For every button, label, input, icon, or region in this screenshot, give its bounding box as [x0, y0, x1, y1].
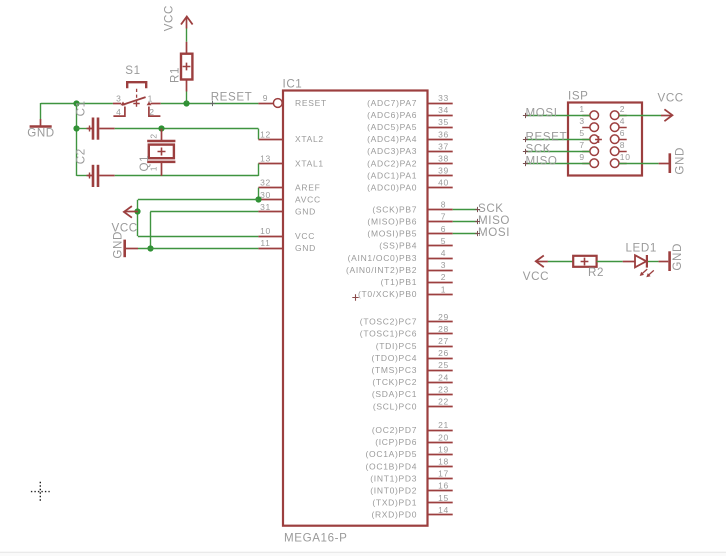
sheet origin dotted cross: [31, 482, 50, 501]
svg-text:19: 19: [438, 444, 449, 454]
svg-text:34: 34: [438, 105, 449, 115]
svg-text:13: 13: [260, 154, 271, 164]
crystal Q1: [147, 129, 175, 176]
ISP pin 1 pad: [579, 104, 598, 119]
ISP origin cross: [595, 136, 602, 143]
svg-text:ISP: ISP: [568, 90, 589, 103]
svg-text:(SDA)PC1: (SDA)PC1: [372, 389, 417, 399]
IC1 origin cross: [352, 294, 358, 300]
svg-text:(INT1)PD3: (INT1)PD3: [370, 473, 417, 483]
svg-text:1: 1: [579, 104, 584, 114]
svg-text:37: 37: [438, 141, 449, 151]
wire: [548, 261, 573, 263]
svg-text:(ADC2)PA2: (ADC2)PA2: [367, 158, 417, 168]
IC1 pin 16 (INT0)PD2: [370, 481, 452, 496]
svg-text:(ADC4)PA4: (ADC4)PA4: [367, 134, 417, 144]
svg-text:(TXD)PD1: (TXD)PD1: [372, 498, 417, 508]
svg-text:C2: C2: [75, 148, 88, 164]
svg-text:4: 4: [620, 116, 625, 126]
svg-text:(AIN0/INT2)PB2: (AIN0/INT2)PB2: [346, 265, 417, 275]
svg-text:GND: GND: [671, 243, 684, 271]
svg-text:R1: R1: [168, 67, 181, 83]
svg-text:(ADC0)PA0: (ADC0)PA0: [367, 183, 417, 193]
svg-text:(TOSC2)PC7: (TOSC2)PC7: [360, 317, 417, 327]
ground symbol at ISP (rotated): [659, 153, 670, 173]
svg-text:(SCL)PC0: (SCL)PC0: [373, 401, 417, 411]
svg-text:6: 6: [441, 224, 446, 234]
svg-text:2: 2: [620, 104, 625, 114]
svg-text:32: 32: [260, 178, 271, 188]
svg-text:(ADC3)PA3: (ADC3)PA3: [367, 146, 417, 156]
wire: [138, 199, 259, 201]
wire: [186, 29, 188, 42]
IC1 pin 19 (OC1A)PD5: [366, 444, 453, 459]
ISP pin 9 pad: [579, 152, 598, 167]
svg-text:14: 14: [438, 505, 449, 515]
IC1 pin 28 (TOSC1)PC6: [360, 324, 453, 339]
IC1 pin 8 (SCK)PB7: [372, 200, 452, 215]
svg-text:RESET: RESET: [295, 98, 327, 108]
svg-text:(SS)PB4: (SS)PB4: [379, 241, 417, 251]
node junction AVCC pin 30: [255, 196, 261, 202]
VCC supply symbol above R1: [181, 17, 193, 29]
wire: [76, 103, 78, 176]
node junction VCC supply tap: [134, 208, 140, 214]
IC1 pin 37 (ADC3)PA3: [367, 141, 453, 156]
IC1 pin 35 (ADC5)PA5: [367, 117, 453, 132]
svg-text:VCC: VCC: [658, 92, 684, 105]
svg-text:4: 4: [441, 248, 446, 258]
bottom window separator line: [0, 552, 726, 556]
svg-text:(T0/XCK)PB0: (T0/XCK)PB0: [358, 289, 417, 299]
svg-text:AREF: AREF: [295, 183, 320, 193]
svg-text:C1: C1: [75, 100, 88, 116]
svg-text:(TCK)PC2: (TCK)PC2: [372, 377, 417, 387]
IC1 pin 9 RESET: [258, 93, 326, 108]
svg-text:11: 11: [260, 238, 270, 248]
ground symbol at LED1 (rotated): [659, 251, 670, 271]
ground symbol mid-left: [125, 240, 139, 258]
wire: [526, 151, 590, 153]
svg-text:(SCK)PB7: (SCK)PB7: [372, 204, 417, 214]
wire: [258, 188, 260, 200]
svg-text:10: 10: [620, 152, 631, 162]
IC1 pin 29 (TOSC2)PC7: [360, 312, 453, 327]
svg-text:12: 12: [260, 129, 271, 139]
svg-text:8: 8: [620, 140, 625, 150]
svg-text:MISO: MISO: [478, 214, 510, 227]
svg-text:GND: GND: [295, 207, 316, 217]
svg-text:(TDO)PC4: (TDO)PC4: [371, 353, 417, 363]
IC1 pin 14 (RXD)PD0: [371, 505, 452, 520]
svg-text:2: 2: [149, 107, 154, 117]
svg-text:3: 3: [579, 116, 584, 126]
ISP pin 7 pad: [579, 140, 598, 155]
svg-text:7: 7: [441, 212, 446, 222]
svg-text:36: 36: [438, 129, 449, 139]
IC1 pin 10 VCC: [258, 226, 315, 241]
svg-text:(ADC7)PA7: (ADC7)PA7: [367, 98, 417, 108]
svg-text:15: 15: [438, 493, 449, 503]
ISP pin 4 pad: [610, 116, 626, 131]
svg-text:40: 40: [438, 178, 449, 188]
svg-text:(MISO)PB6: (MISO)PB6: [367, 217, 417, 227]
svg-text:3: 3: [441, 260, 446, 270]
svg-text:(TMS)PC3: (TMS)PC3: [371, 365, 417, 375]
wire: [115, 128, 259, 130]
svg-text:MEGA16-P: MEGA16-P: [284, 532, 347, 545]
svg-text:16: 16: [438, 481, 449, 491]
capacitor C2: [87, 165, 115, 187]
wire: [77, 128, 88, 130]
IC1 pin 36 (ADC4)PA4: [367, 129, 453, 144]
wire: [150, 211, 258, 213]
wire: [258, 129, 260, 140]
svg-text:10: 10: [260, 226, 271, 236]
IC1 pin 1 (T0/XCK)PB0: [358, 284, 453, 299]
IC1 pin 20 (ICP)PD6: [375, 432, 452, 447]
wire: [138, 236, 259, 238]
svg-text:S1: S1: [125, 64, 140, 77]
ISP pin 2 pad: [610, 104, 626, 119]
wire: [648, 261, 659, 263]
svg-text:24: 24: [438, 372, 449, 382]
node junction GND rail at reset wire: [73, 100, 79, 106]
RESET label origin cross: [210, 101, 215, 106]
IC1 pin 4 (AIN1/OC0)PB3: [348, 248, 453, 263]
svg-text:38: 38: [438, 154, 449, 164]
IC1 pin 23 (SDA)PC1: [372, 384, 453, 399]
svg-text:RESET: RESET: [211, 90, 253, 103]
node junction crystal top at XTAL2 net: [158, 125, 164, 131]
svg-text:(OC2)PD7: (OC2)PD7: [372, 425, 417, 435]
IC1 pin 33 (ADC7)PA7: [367, 93, 453, 108]
capacitor C1: [87, 118, 115, 140]
svg-text:GND: GND: [112, 231, 125, 259]
IC1 pin 39 (ADC1)PA1: [367, 166, 453, 181]
ground symbol top-left: [30, 119, 52, 127]
svg-text:4: 4: [116, 107, 121, 117]
IC1 pin 7 (MISO)PB6: [367, 212, 452, 227]
IC1 pin 31 GND: [258, 202, 316, 217]
svg-text:(ADC1)PA1: (ADC1)PA1: [367, 170, 417, 180]
IC1 pin 17 (INT1)PD3: [370, 469, 452, 484]
wire: [137, 200, 139, 236]
ISP pin 10 pad: [610, 152, 630, 167]
VCC supply symbol (pointing left) at R2: [536, 256, 548, 268]
svg-text:Q1: Q1: [138, 155, 151, 172]
svg-text:8: 8: [441, 200, 446, 210]
svg-text:(TOSC1)PC6: (TOSC1)PC6: [360, 329, 417, 339]
svg-text:(MOSI)PB5: (MOSI)PB5: [367, 229, 417, 239]
wire: [526, 139, 590, 141]
svg-text:39: 39: [438, 166, 449, 176]
IC1 pin 25 (TMS)PC3: [371, 360, 452, 375]
wire: [161, 103, 259, 105]
svg-text:25: 25: [438, 360, 449, 370]
svg-text:VCC: VCC: [163, 5, 176, 31]
wire: [115, 175, 259, 177]
ISP pin 3 pad: [579, 116, 598, 131]
svg-text:VCC: VCC: [523, 270, 549, 283]
wire: [453, 209, 478, 211]
svg-text:(OC1B)PD4: (OC1B)PD4: [366, 461, 418, 471]
wire: [40, 103, 42, 119]
wire: [453, 233, 478, 235]
svg-text:23: 23: [438, 384, 449, 394]
IC1 pin 32 AREF: [258, 178, 320, 193]
svg-text:R2: R2: [588, 266, 604, 279]
svg-text:(OC1A)PD5: (OC1A)PD5: [366, 449, 418, 459]
svg-text:(RXD)PD0: (RXD)PD0: [371, 510, 417, 520]
svg-text:29: 29: [438, 312, 449, 322]
svg-text:2: 2: [149, 133, 159, 138]
svg-text:GND: GND: [27, 127, 55, 140]
wire: [138, 248, 258, 250]
svg-text:MISO: MISO: [526, 154, 558, 167]
IC1 pin 3 (AIN0/INT2)PB2: [346, 260, 453, 275]
svg-text:17: 17: [438, 469, 449, 479]
IC1 pin 30 AVCC: [258, 190, 320, 205]
IC1 pin 40 (ADC0)PA0: [367, 178, 453, 193]
IC1 pin 38 (ADC2)PA2: [367, 154, 453, 169]
connector ISP body: [568, 103, 642, 176]
svg-text:31: 31: [260, 202, 271, 212]
svg-text:20: 20: [438, 432, 449, 442]
IC1 pin 24 (TCK)PC2: [372, 372, 452, 387]
svg-text:(ICP)PD6: (ICP)PD6: [375, 437, 417, 447]
IC1 pin 18 (OC1B)PD4: [366, 457, 453, 472]
IC1 pin 6 (MOSI)PB5: [367, 224, 452, 239]
node junction RESET at R1: [183, 100, 189, 106]
svg-text:MOSI: MOSI: [478, 226, 510, 239]
VCC supply symbol (pointing right): [661, 109, 672, 121]
wire: [619, 163, 659, 165]
wire: [526, 115, 590, 117]
svg-text:MOSI: MOSI: [526, 106, 558, 119]
svg-text:IC1: IC1: [283, 78, 303, 91]
svg-text:27: 27: [438, 336, 449, 346]
svg-text:1: 1: [148, 93, 153, 103]
svg-text:9: 9: [263, 93, 268, 103]
svg-text:GND: GND: [674, 147, 687, 175]
svg-text:(ADC6)PA6: (ADC6)PA6: [367, 110, 417, 120]
svg-text:(INT0)PD2: (INT0)PD2: [370, 486, 417, 496]
IC1 pin 11 GND: [258, 238, 316, 253]
svg-text:7: 7: [579, 140, 584, 150]
svg-text:1: 1: [441, 284, 446, 294]
wire: [453, 221, 478, 223]
svg-text:XTAL1: XTAL1: [295, 158, 324, 168]
wire: [258, 164, 260, 176]
wire: [77, 175, 88, 177]
svg-text:AVCC: AVCC: [295, 195, 321, 205]
IC1 pin 5 (SS)PB4: [379, 236, 452, 251]
IC1 pin 34 (ADC6)PA6: [367, 105, 453, 120]
resistor R2: [573, 256, 596, 267]
svg-text:5: 5: [441, 236, 446, 246]
IC1 pin 27 (TDI)PC5: [376, 336, 453, 351]
IC1 pin 2 (T1)PB1: [381, 272, 453, 287]
node junction GND rail at C1: [73, 125, 79, 131]
svg-text:9: 9: [579, 152, 584, 162]
IC1 pin 12 XTAL2: [258, 129, 323, 144]
svg-text:(TDI)PC5: (TDI)PC5: [376, 341, 418, 351]
IC1 pin 22 (SCL)PC0: [373, 397, 453, 412]
svg-text:21: 21: [438, 420, 449, 430]
svg-text:22: 22: [438, 397, 449, 407]
ISP pin 8 pad: [610, 140, 626, 155]
LED LED1: [623, 255, 654, 277]
svg-text:28: 28: [438, 324, 449, 334]
svg-text:SCK: SCK: [478, 202, 504, 215]
ISP pin 6 pad: [610, 128, 626, 143]
IC1 pin 13 XTAL1: [258, 154, 323, 169]
svg-text:26: 26: [438, 348, 449, 358]
wire: [186, 92, 188, 104]
resistor R1: [181, 42, 192, 92]
op-amp/IC U1: microcontroller IC1 MEGA16-P body: [283, 91, 428, 526]
VCC supply symbol (pointing left): [124, 206, 138, 218]
svg-text:(ADC5)PA5: (ADC5)PA5: [367, 122, 417, 132]
IC1 pin 26 (TDO)PC4: [371, 348, 452, 363]
svg-text:33: 33: [438, 93, 449, 103]
svg-text:6: 6: [620, 128, 625, 138]
node junction GND pin 11 row: [147, 245, 153, 251]
IC1 pin 15 (TXD)PD1: [372, 493, 452, 508]
wire: [597, 261, 623, 263]
wire: [619, 115, 661, 117]
svg-text:(AIN1/OC0)PB3: (AIN1/OC0)PB3: [348, 253, 418, 263]
svg-text:35: 35: [438, 117, 449, 127]
svg-text:18: 18: [438, 457, 449, 467]
svg-text:LED1: LED1: [626, 241, 657, 254]
svg-text:30: 30: [260, 190, 271, 200]
svg-text:GND: GND: [295, 243, 316, 253]
svg-text:2: 2: [441, 272, 446, 282]
svg-text:3: 3: [116, 93, 121, 103]
svg-text:VCC: VCC: [295, 231, 315, 241]
svg-text:5: 5: [579, 128, 584, 138]
wire: [526, 163, 590, 165]
svg-text:XTAL2: XTAL2: [295, 134, 324, 144]
switch S1: [113, 82, 161, 116]
svg-text:(T1)PB1: (T1)PB1: [381, 277, 418, 287]
IC1 pin 21 (OC2)PD7: [372, 420, 453, 435]
wire: [150, 212, 152, 248]
wire: [41, 103, 113, 105]
ISP pin 5 pad: [579, 128, 598, 143]
